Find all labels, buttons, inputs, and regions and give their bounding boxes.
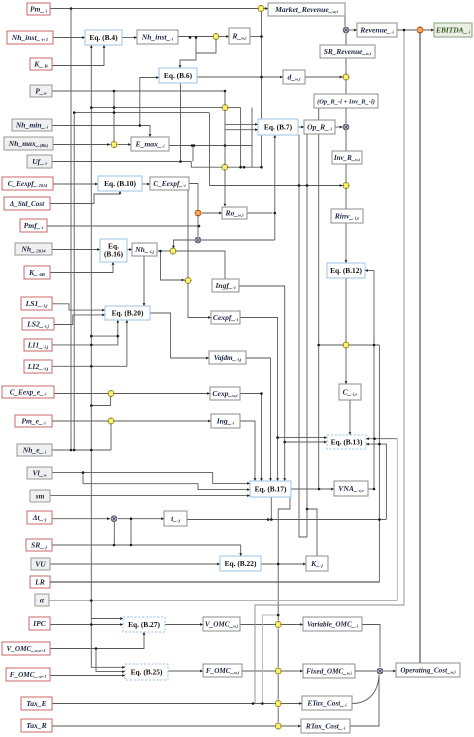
wire vertical x74 (73, 113, 75, 450)
box Rinv (331, 209, 363, 223)
box Operating_Cost (396, 663, 460, 677)
wire V_OMC_a1 to Eq B.25 (96, 649, 125, 672)
wire mult node to E_max (118, 144, 131, 146)
box Fixed_OMC (303, 664, 355, 678)
svg-text:Cexpf_-i: Cexpf_-i (213, 313, 239, 322)
wire Revenue loop down (255, 30, 404, 704)
wire branch Nh_inst to Eq B.6 top (180, 38, 196, 67)
wire mult node Uf to vertical (228, 166, 261, 168)
wire mid row to Eq B.17 (83, 484, 250, 490)
wire Eq B.10 to C_Eexpf_i (142, 183, 150, 185)
wire mult node t down (113, 522, 115, 545)
box P_w (30, 85, 52, 97)
svg-text:Eq. (B.20): Eq. (B.20) (112, 308, 144, 317)
wire Ro riser to Eq B.7 bottom (274, 137, 276, 240)
box LR (30, 576, 50, 588)
wire K_B to Eq B.4 bottom (52, 45, 104, 66)
wire Nh_min riser to Eq B.6 left (140, 78, 159, 126)
wire Eq B.22 to K_j (261, 563, 306, 565)
box EqB4 (85, 30, 122, 45)
mult node C_ie (343, 342, 349, 348)
svg-text:Nh_e_-i: Nh_e_-i (22, 445, 47, 454)
wire Cexpf branch to Eq B.13 (278, 437, 327, 439)
svg-text:Tax_E: Tax_E (26, 699, 46, 708)
svg-text:E_max_-i: E_max_-i (135, 139, 166, 148)
wire d to mult node (305, 76, 343, 78)
box V_OMC_wa1 (2, 642, 50, 655)
wire Rinv to Eq B.12 (345, 223, 347, 263)
wire arrowheads (82, 7, 434, 727)
box EqB22 (220, 556, 261, 571)
wire Eq B.12 to mult node C (345, 278, 347, 342)
box sm (30, 490, 50, 502)
box LI2_ij (24, 360, 52, 373)
wire sum node to Ro (202, 212, 222, 214)
svg-text:Eq. (B.10): Eq. (B.10) (104, 179, 136, 188)
wire Ingf branch to Eq B.13 (285, 441, 327, 443)
wire sum node to Inv_R (345, 131, 347, 152)
wire mult node Rinv left (210, 185, 343, 187)
wire mult node to R_wi (220, 36, 230, 38)
wire E_max out (169, 145, 252, 147)
mult node Rinv (343, 182, 349, 188)
wire mult node to RTax_Cost (282, 725, 301, 727)
wire Cexp out (240, 393, 261, 395)
wire vertical x114 P_w (113, 91, 115, 141)
box Vajdm_ij (209, 351, 246, 364)
wire Nh_inst_t+1 to Eq B.4 (53, 37, 85, 39)
wire C_Eexpf_i to sum node (189, 184, 198, 210)
wire long vertical x91 (91, 45, 125, 667)
svg-text:Eq. (B.27): Eq. (B.27) (128, 620, 160, 629)
mult node Fixed_OMC (275, 668, 281, 674)
wire ETax curve to sum node (352, 675, 379, 704)
box Cexpf_i (211, 311, 240, 324)
wire chain ETax to RTax (277, 708, 279, 723)
box Vl_w (27, 467, 52, 479)
wire LS1 to Eq B.20 (52, 304, 105, 310)
box Ing_i (211, 414, 240, 428)
wire x91 to mult node row (91, 107, 221, 109)
mult node E_max (111, 141, 117, 147)
sum node Op_R (343, 124, 349, 130)
wire chain Fixed to ETax (277, 675, 279, 700)
box Nh_ij (132, 243, 157, 256)
box EqB6 (159, 68, 197, 83)
wire junction dots (70, 7, 406, 705)
wire Revenue to EBITDA (397, 29, 434, 31)
svg-text:LR: LR (34, 577, 45, 586)
wire Fixed_OMC to sum node (355, 670, 377, 672)
wire Inv_R to mult node (345, 164, 347, 182)
box EqB27 (123, 617, 165, 632)
mult node t_j (111, 516, 117, 522)
svg-text:Fixed_OMC_w,i: Fixed_OMC_w,i (306, 667, 353, 675)
wire sum node to Revenue (350, 29, 358, 31)
wire U horizontal at C (319, 344, 379, 346)
box EqB25 (125, 664, 168, 680)
box d_wi (283, 70, 305, 84)
wire Variable_OMC out (362, 625, 380, 668)
wire mult node Nh up (174, 240, 195, 248)
wire Uf row corner to mult node (191, 162, 221, 168)
wire vertical x225 (224, 91, 226, 204)
wire Eq B.12 right loop (365, 270, 374, 272)
wire mult node to Cexpf (188, 284, 211, 318)
svg-text:Eq. (B.25): Eq. (B.25) (131, 667, 163, 676)
box Nh_max_Rh (4, 137, 53, 150)
box Revenue (357, 23, 397, 37)
box Cexp_wi (210, 387, 240, 400)
wire alpha loop up (396, 439, 398, 601)
wire vertical x299 (299, 135, 307, 537)
wire mult node to Variable_OMC (282, 624, 303, 626)
wire mult node branch to Eq B.7 b (225, 129, 256, 131)
wire mult node down to Nh_e (110, 425, 112, 451)
box Ingf_i (212, 279, 239, 292)
wire C_Eexpf bottom to mult node (187, 190, 189, 277)
mult node Nh_ij (170, 248, 176, 254)
wire Nh row drop to Cexpf node (161, 251, 185, 280)
wire chain feedback (262, 615, 278, 704)
svg-text:ETax_Cost_-i: ETax_Cost_-i (306, 698, 347, 707)
svg-text:EBITDA_-i: EBITDA_-i (435, 25, 471, 34)
box E_max_i (131, 137, 169, 151)
mult node Variable_OMC (275, 621, 281, 627)
box Op_R (304, 120, 335, 134)
wire V_OMC_a1 row (50, 632, 144, 649)
mult node d x OpInv (343, 74, 349, 80)
wire vertical x307 (306, 134, 308, 537)
wire mult node leg to x91 (91, 397, 110, 406)
svg-text:Eq. (B.12): Eq. (B.12) (330, 266, 362, 275)
sum node Operating_Cost (377, 668, 383, 674)
svg-text:Eq. (B.6): Eq. (B.6) (164, 71, 193, 80)
sum node EBITDA (417, 27, 423, 33)
wire chain Variable to Fixed (277, 629, 279, 668)
svg-text:Eq. (B.22): Eq. (B.22) (225, 559, 257, 568)
wire vertical x261 lower to Eq B.17 (261, 394, 263, 480)
wire Eq B.16 to Nh_ij (127, 249, 132, 251)
box LS1_ij (21, 297, 52, 310)
wire Eq B.17 chain out (278, 497, 290, 621)
wire t_j branch down (130, 519, 132, 545)
wire mult node to C_ie (345, 349, 347, 385)
box Dt_j (27, 511, 52, 524)
box EqB16 (100, 239, 127, 262)
sum node Pmf (195, 237, 201, 243)
wire IPC to Eq B.27 (50, 624, 123, 626)
wire Nh_e row (52, 449, 111, 451)
wire mid row stub (82, 473, 84, 484)
wire row y107 right stub (229, 107, 241, 109)
wire Pmf row (47, 225, 199, 227)
mult node Cexp (108, 390, 114, 396)
wire branch below mult node (196, 40, 216, 53)
wire sm row to Eq B.17 (50, 495, 250, 497)
svg-text:Eq. (B.17): Eq. (B.17) (255, 484, 287, 493)
box R_wi (229, 28, 250, 44)
box LI1_ij (24, 339, 52, 351)
wire vertical from Pm_i (70, 9, 72, 451)
svg-text:VU: VU (35, 559, 46, 568)
box Nh_e_i (17, 444, 52, 456)
wire LI1 to Eq B.20 bottom (52, 320, 118, 345)
wire mult node to Fixed_OMC (282, 670, 303, 672)
mult node Cexpf (185, 277, 191, 283)
wire Eq B.17 to VNA (291, 488, 334, 490)
wire mult node to Cexp (115, 393, 211, 395)
wire Pm_e row (52, 420, 108, 422)
wire Nh_ij box to Eq B.20 top (143, 256, 145, 306)
wire V_OMC to mult node (240, 624, 275, 626)
wire Nh_ij to mult node (157, 250, 170, 252)
wire SR row to Eq B.22 (52, 545, 241, 556)
wire Eq B.6 to d (197, 76, 283, 78)
wire Operating_Cost to EBITDA loop (419, 30, 421, 663)
box IPC (29, 617, 50, 630)
box EBITDA (434, 23, 472, 37)
svg-text:Δ_Std_Cost: Δ_Std_Cost (9, 200, 45, 208)
wire Ro out (247, 212, 273, 214)
wire C_Eexp_e row (54, 393, 108, 395)
box Nh_2014 (15, 243, 52, 255)
box t_j (164, 511, 187, 526)
box Ro_wi (222, 207, 247, 219)
wire Nh_2014 to Eq B.16 (52, 249, 100, 251)
wire F_OMC to mult node (242, 670, 275, 672)
wire vertical x374 (373, 271, 375, 490)
box Nh_inst_i (137, 30, 178, 44)
svg-text:(Op_R_-i + Inv_R_-i): (Op_R_-i + Inv_R_-i) (317, 98, 375, 105)
wire alpha row (49, 600, 397, 602)
wire x91 branch to B.20 feeder (91, 335, 118, 337)
box EqB13 (327, 435, 366, 449)
box Pm_i (27, 3, 50, 15)
mult node RTax (275, 723, 281, 729)
mult node Ing (108, 418, 114, 424)
wire Nh_min to E_max top (52, 126, 150, 138)
box K_6B (24, 266, 50, 279)
wire LR loop up (378, 345, 380, 582)
box EqB7 (258, 119, 298, 135)
box VU (31, 558, 50, 570)
wire Market_Revenue to sum node (344, 16, 346, 27)
wire Cexpf out (240, 318, 278, 480)
wire Pm_i row (50, 8, 258, 10)
box SR_Revenue (320, 45, 375, 58)
svg-text:Nh_min_-i: Nh_min_-i (15, 120, 49, 129)
wire mult node branch to Eq B.7 a (225, 123, 256, 125)
mult node Uf path (222, 164, 228, 170)
svg-text:Eq. (B.4): Eq. (B.4) (89, 33, 118, 42)
box K_j (306, 556, 328, 571)
wire U left vertical (318, 108, 320, 489)
wire VU row to Eq B.22 (50, 563, 220, 565)
wire mult node to t_j (118, 518, 164, 520)
mult node Market_Revenue (258, 5, 264, 11)
box Pmf_i (20, 219, 47, 232)
box EqB12 (327, 263, 365, 278)
wire loop to Eq B.27 (91, 618, 123, 620)
box F_OMC_a1 (6, 668, 50, 681)
wire Eq B.25 to F_OMC (168, 670, 203, 672)
wire row y112 (74, 112, 209, 114)
wire sum node to Operating_Cost (384, 670, 397, 672)
box C_ie (339, 384, 361, 400)
box Variable_OMC (303, 617, 362, 631)
wire E_max row drop (192, 146, 194, 162)
box K_B (30, 58, 52, 70)
box Market_Revenue (268, 3, 345, 16)
wire Ingf out (239, 286, 285, 479)
wire t_j out (187, 519, 386, 521)
wire VNA to loop (368, 488, 374, 490)
box alpha (35, 594, 49, 606)
svg-text:Operating_Cost_w,i: Operating_Cost_w,i (400, 666, 456, 674)
wire sum node Pmf right (202, 239, 275, 241)
wire vertical x252 (251, 108, 253, 168)
wire t_j loop to Eq B.13 (366, 444, 386, 519)
sum node Revenue (343, 27, 349, 33)
svg-text:Op_R_-i: Op_R_-i (307, 122, 332, 131)
svg-text:Eq. (B.13): Eq. (B.13) (331, 437, 363, 446)
box RTax_Cost (301, 719, 350, 733)
wire mult node to ETax_Cost (282, 703, 302, 705)
wire P_w row (52, 90, 225, 92)
box F_OMC_wi (203, 664, 242, 677)
wire Eq B.17 bottom out (270, 497, 272, 520)
wire sum node Ro down (197, 217, 199, 237)
mult node Nh_inst (213, 33, 219, 39)
wire vertical x261 upper (261, 12, 263, 167)
svg-text:(B.16): (B.16) (104, 249, 124, 258)
wire junction to Market_Revenue (265, 8, 269, 10)
wire LI2 to Eq B.20 bottom (52, 320, 127, 366)
box Nh_inst_t1 (7, 31, 53, 44)
wire Tax_R row (52, 725, 275, 727)
box C_Eexpf_2014 (2, 177, 53, 190)
wire Eq B.20 to Vajdm (150, 313, 209, 358)
mult node ETax (275, 700, 281, 706)
svg-text:Eq. (B.7): Eq. (B.7) (264, 122, 293, 131)
box Inv_R (332, 151, 362, 164)
wire Ing out (240, 421, 255, 479)
svg-text:RTax_Cost_-i: RTax_Cost_-i (305, 721, 346, 730)
wire Tax_E row (52, 703, 275, 705)
wire Op_R to sum node (335, 126, 343, 128)
wire mult node Nh right (177, 251, 226, 279)
svg-text:C_Eexpf_-i: C_Eexpf_-i (153, 180, 186, 188)
svg-text:C_Eexp_e_-i: C_Eexp_e_-i (10, 388, 47, 396)
box C_Eexp_e_i (2, 386, 54, 398)
wire F_OMC_a1 row (50, 675, 125, 677)
wire LS2 to Eq B.20 (54, 315, 105, 325)
box OpInv (314, 94, 378, 108)
wire RTax loop (350, 675, 379, 726)
wire Vajdm out (246, 358, 271, 479)
svg-text:Market_Revenue_w,i: Market_Revenue_w,i (274, 5, 338, 14)
svg-text:Variable_OMC_-i: Variable_OMC_-i (307, 620, 359, 628)
wire sum node to SR_Revenue (345, 34, 347, 46)
box EqB17 (250, 481, 291, 497)
box EqB10 (98, 176, 142, 191)
wire vertical from Eq B.6 to Uf row (180, 83, 182, 162)
wire LR row (50, 581, 379, 583)
box Tax_E (21, 697, 52, 710)
wire Nh_inst_i to mult node (178, 36, 213, 38)
box Pm_e_i (15, 415, 52, 427)
wire Uf row (52, 161, 191, 163)
svg-text:Tax_R: Tax_R (26, 721, 46, 730)
wire SR_Revenue to mult node (345, 58, 347, 74)
wire mult node to Ing (115, 420, 212, 422)
wire Vl row (52, 473, 250, 484)
box VNA (334, 481, 368, 496)
wire OpInv to sum node (345, 108, 347, 124)
wire C_ie to Eq B.13 (349, 400, 351, 435)
wire K_6B to Eq B.16 bottom (50, 262, 113, 273)
sum node Ro (195, 210, 201, 216)
wire Dt row (52, 518, 110, 520)
wire Delta_Std to Eq B.10 bottom (50, 191, 120, 204)
box ETax_Cost (302, 696, 352, 710)
box Uf_i (27, 155, 52, 168)
svg-text:Pm_e_-i: Pm_e_-i (21, 416, 46, 425)
wire drop x209 (209, 113, 211, 186)
wire C_Eexpf_2014 to Eq B.10 (53, 183, 98, 185)
wire Eq B.7 to Op_R (298, 126, 304, 128)
svg-text:Nh_inst_-i: Nh_inst_-i (141, 32, 174, 41)
box EqB20 (105, 306, 150, 320)
wire Eq B.27 to V_OMC (165, 624, 203, 626)
svg-text:Revenue_-i: Revenue_-i (359, 25, 394, 34)
svg-text:SR_Revenue_w,i: SR_Revenue_w,i (324, 47, 372, 56)
box Tax_R (21, 719, 52, 732)
wire R_wi to vertical (250, 36, 261, 38)
wire Nh_max to mult node (53, 144, 110, 146)
box V_OMC_wi (203, 617, 240, 631)
box Nh_min_i (12, 119, 52, 131)
wire branch x307 right (307, 509, 317, 556)
wire mult node to OpInv (345, 81, 347, 95)
box D_Std_Cost (4, 197, 50, 210)
mult node P_w path (222, 105, 228, 111)
wire mult node to Rinv (345, 189, 347, 209)
svg-text:IPC: IPC (32, 619, 47, 628)
wire into Eq B.13 right 1 (366, 438, 397, 440)
svg-text:sm: sm (35, 491, 45, 500)
box C_Eexpf_i (150, 177, 189, 190)
box SR_j (26, 539, 52, 551)
wire Eq B.4 to Nh_inst_i (122, 37, 137, 39)
wire vertical x240 (240, 108, 242, 168)
box LS2_ij (22, 318, 54, 330)
